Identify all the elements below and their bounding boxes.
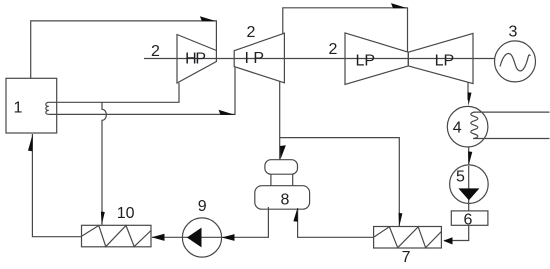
svg-text:10: 10 <box>117 205 135 222</box>
svg-text:4: 4 <box>453 120 462 137</box>
svg-text:2: 2 <box>247 24 256 41</box>
svg-text:LP: LP <box>435 52 455 69</box>
svg-text:6: 6 <box>464 212 473 229</box>
svg-text:7: 7 <box>402 249 411 266</box>
svg-text:1: 1 <box>14 99 23 116</box>
svg-text:2: 2 <box>329 41 338 58</box>
svg-text:8: 8 <box>280 192 289 209</box>
svg-text:5: 5 <box>456 168 465 185</box>
svg-text:LP: LP <box>356 52 376 69</box>
svg-text:I P: I P <box>245 50 265 67</box>
svg-text:HP: HP <box>185 50 205 67</box>
svg-text:3: 3 <box>509 24 518 41</box>
svg-text:2: 2 <box>151 43 160 60</box>
svg-text:9: 9 <box>198 198 207 215</box>
